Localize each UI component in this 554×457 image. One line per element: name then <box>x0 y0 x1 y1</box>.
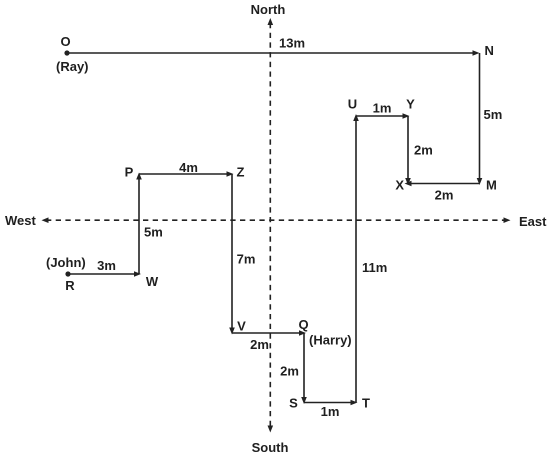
east axis arrowhead <box>504 217 511 223</box>
svg-text:U: U <box>348 97 357 112</box>
arrowhead at Q <box>299 330 306 336</box>
svg-text:M: M <box>486 178 497 193</box>
wire P-Z 4m east <box>139 173 230 175</box>
svg-text:West: West <box>5 213 36 228</box>
svg-text:Z: Z <box>237 165 245 180</box>
svg-text:2m: 2m <box>435 188 454 203</box>
svg-text:2m: 2m <box>250 337 269 352</box>
svg-text:2m: 2m <box>414 143 433 158</box>
wire M-X 2m west <box>411 183 480 185</box>
arrowhead at W <box>134 271 141 277</box>
svg-text:T: T <box>362 396 370 411</box>
arrowhead at Z <box>227 171 234 177</box>
svg-text:W: W <box>146 274 159 289</box>
svg-text:N: N <box>485 43 494 58</box>
svg-text:Y: Y <box>406 97 415 112</box>
wire Q-S 2m south <box>303 333 305 400</box>
arrowhead at T <box>351 400 358 406</box>
svg-text:13m: 13m <box>279 36 305 51</box>
south axis arrowhead <box>268 426 274 433</box>
arrowhead at V <box>229 328 235 335</box>
west axis arrowhead <box>42 217 49 223</box>
svg-text:2m: 2m <box>280 364 299 379</box>
north-south dashed axis <box>269 23 271 428</box>
wire U-Y 1m east <box>356 115 406 117</box>
svg-text:North: North <box>251 2 286 17</box>
wire Y-X 2m south <box>407 116 409 181</box>
west-east dashed axis <box>46 219 506 221</box>
node O start dot <box>64 50 69 55</box>
svg-text:11m: 11m <box>362 260 387 275</box>
svg-text:Q: Q <box>298 317 308 332</box>
wire O-N 13m east <box>67 52 477 54</box>
svg-text:1m: 1m <box>373 101 392 116</box>
wire S-T 1m east <box>304 402 354 404</box>
svg-text:East: East <box>519 214 547 229</box>
svg-text:R: R <box>65 278 75 293</box>
arrowhead at X from M <box>405 181 412 187</box>
north axis arrowhead <box>268 18 274 25</box>
arrowhead at U <box>353 114 359 121</box>
svg-text:O: O <box>60 34 70 49</box>
svg-text:7m: 7m <box>237 252 256 267</box>
svg-text:3m: 3m <box>97 258 116 273</box>
wire R-W 3m east <box>68 273 137 275</box>
wire T-U 11m north <box>355 119 357 403</box>
wire Z-V 7m south <box>231 174 233 331</box>
svg-text:South: South <box>252 440 289 455</box>
wire N-M 5m south <box>479 53 481 181</box>
wire W-P 5m north <box>138 177 140 275</box>
node R start dot <box>65 271 70 276</box>
svg-text:(John): (John) <box>46 255 86 270</box>
svg-text:1m: 1m <box>321 404 340 419</box>
svg-text:P: P <box>125 165 134 180</box>
svg-text:X: X <box>395 178 404 193</box>
svg-text:S: S <box>289 396 298 411</box>
svg-text:4m: 4m <box>179 160 198 175</box>
svg-text:5m: 5m <box>144 225 163 240</box>
arrowhead at Y <box>403 113 410 119</box>
svg-text:(Harry): (Harry) <box>309 333 352 348</box>
arrowhead at M <box>477 178 483 185</box>
svg-text:(Ray): (Ray) <box>56 59 89 74</box>
svg-text:5m: 5m <box>484 107 503 122</box>
svg-text:V: V <box>237 319 246 334</box>
arrowhead at X from Y <box>405 178 411 185</box>
arrowhead at S <box>301 397 307 404</box>
arrowhead at N <box>473 50 480 56</box>
wire V-Q 2m east <box>232 332 302 334</box>
arrowhead at P <box>136 173 142 180</box>
